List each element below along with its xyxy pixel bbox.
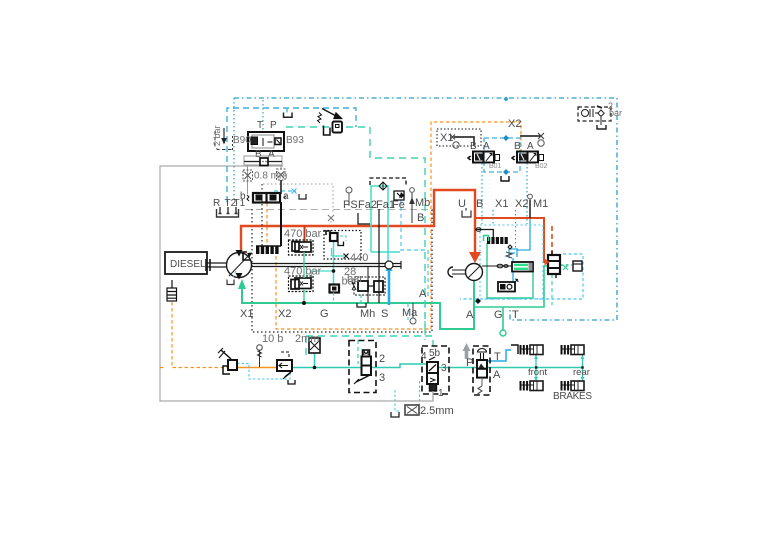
svg-text:X1: X1 [240, 308, 253, 320]
svg-text:2.5mm: 2.5mm [420, 405, 454, 417]
svg-text:U: U [458, 198, 466, 210]
svg-text:Fe: Fe [392, 199, 405, 211]
svg-text:P: P [270, 120, 277, 131]
svg-text:A: A [268, 149, 275, 160]
svg-text:A: A [493, 369, 501, 381]
svg-text:B02: B02 [535, 163, 548, 170]
svg-text:10 b: 10 b [262, 333, 283, 345]
svg-text:440: 440 [350, 252, 368, 264]
svg-text:A: A [483, 141, 490, 152]
svg-text:B: B [476, 198, 483, 210]
svg-text:2mm: 2mm [295, 333, 319, 345]
svg-text:Ma: Ma [402, 307, 418, 319]
svg-text:1: 1 [438, 388, 444, 399]
svg-text:rear: rear [573, 367, 590, 378]
svg-text:T: T [512, 309, 519, 321]
svg-text:X2: X2 [515, 198, 528, 210]
svg-text:0.8 mm: 0.8 mm [254, 171, 287, 182]
svg-text:S: S [381, 308, 388, 320]
svg-text:X2: X2 [278, 308, 291, 320]
svg-text:a: a [283, 191, 289, 202]
svg-text:M1: M1 [533, 198, 548, 210]
svg-text:DIESEL: DIESEL [170, 259, 206, 270]
svg-text:470 bar: 470 bar [284, 266, 322, 278]
svg-text:P: P [466, 357, 473, 369]
svg-text:5b: 5b [429, 348, 441, 359]
svg-text:3: 3 [379, 372, 385, 384]
svg-text:A: A [466, 309, 474, 321]
svg-text:B01: B01 [489, 163, 502, 170]
svg-text:X1: X1 [495, 198, 508, 210]
svg-text:B: B [470, 141, 477, 152]
svg-text:Fa2: Fa2 [358, 199, 377, 211]
svg-text:2 bar: 2 bar [212, 125, 222, 146]
svg-text:X2: X2 [508, 118, 521, 130]
svg-text:3: 3 [441, 363, 447, 374]
svg-text:BRAKES: BRAKES [553, 391, 592, 402]
svg-text:bar: bar [347, 273, 363, 285]
svg-text:T: T [494, 351, 501, 363]
svg-text:Mb: Mb [415, 197, 430, 209]
svg-text:2: 2 [379, 353, 385, 365]
svg-text:PS: PS [343, 199, 358, 211]
svg-text:A: A [419, 288, 427, 300]
svg-text:T: T [257, 120, 263, 131]
svg-text:A: A [527, 141, 534, 152]
svg-text:470 bar: 470 bar [284, 228, 322, 240]
svg-text:R: R [213, 198, 220, 209]
svg-text:G: G [320, 308, 329, 320]
svg-text:B90: B90 [233, 135, 251, 146]
svg-text:2: 2 [608, 101, 613, 111]
svg-text:B: B [417, 212, 424, 224]
svg-text:B93: B93 [286, 135, 304, 146]
svg-text:front: front [528, 367, 547, 378]
svg-text:G: G [494, 309, 503, 321]
svg-text:4: 4 [421, 351, 427, 362]
svg-text:Mh: Mh [360, 308, 375, 320]
svg-text:B: B [514, 141, 521, 152]
